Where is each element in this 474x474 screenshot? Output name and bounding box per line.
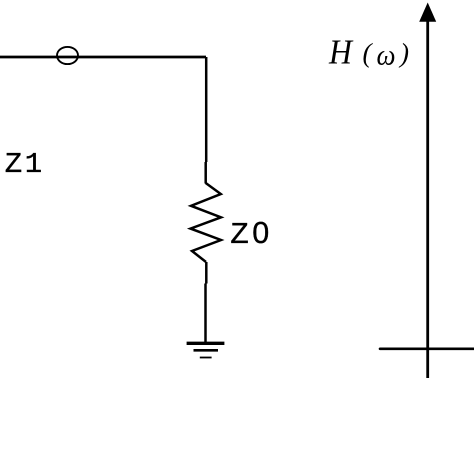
svg-text:H: H [328, 34, 354, 72]
svg-text:0: 0 [252, 216, 269, 250]
svg-text:): ) [398, 38, 409, 68]
svg-text:Z: Z [230, 218, 249, 253]
svg-text:Z1: Z1 [5, 148, 45, 181]
svg-text:ω: ω [377, 39, 396, 72]
